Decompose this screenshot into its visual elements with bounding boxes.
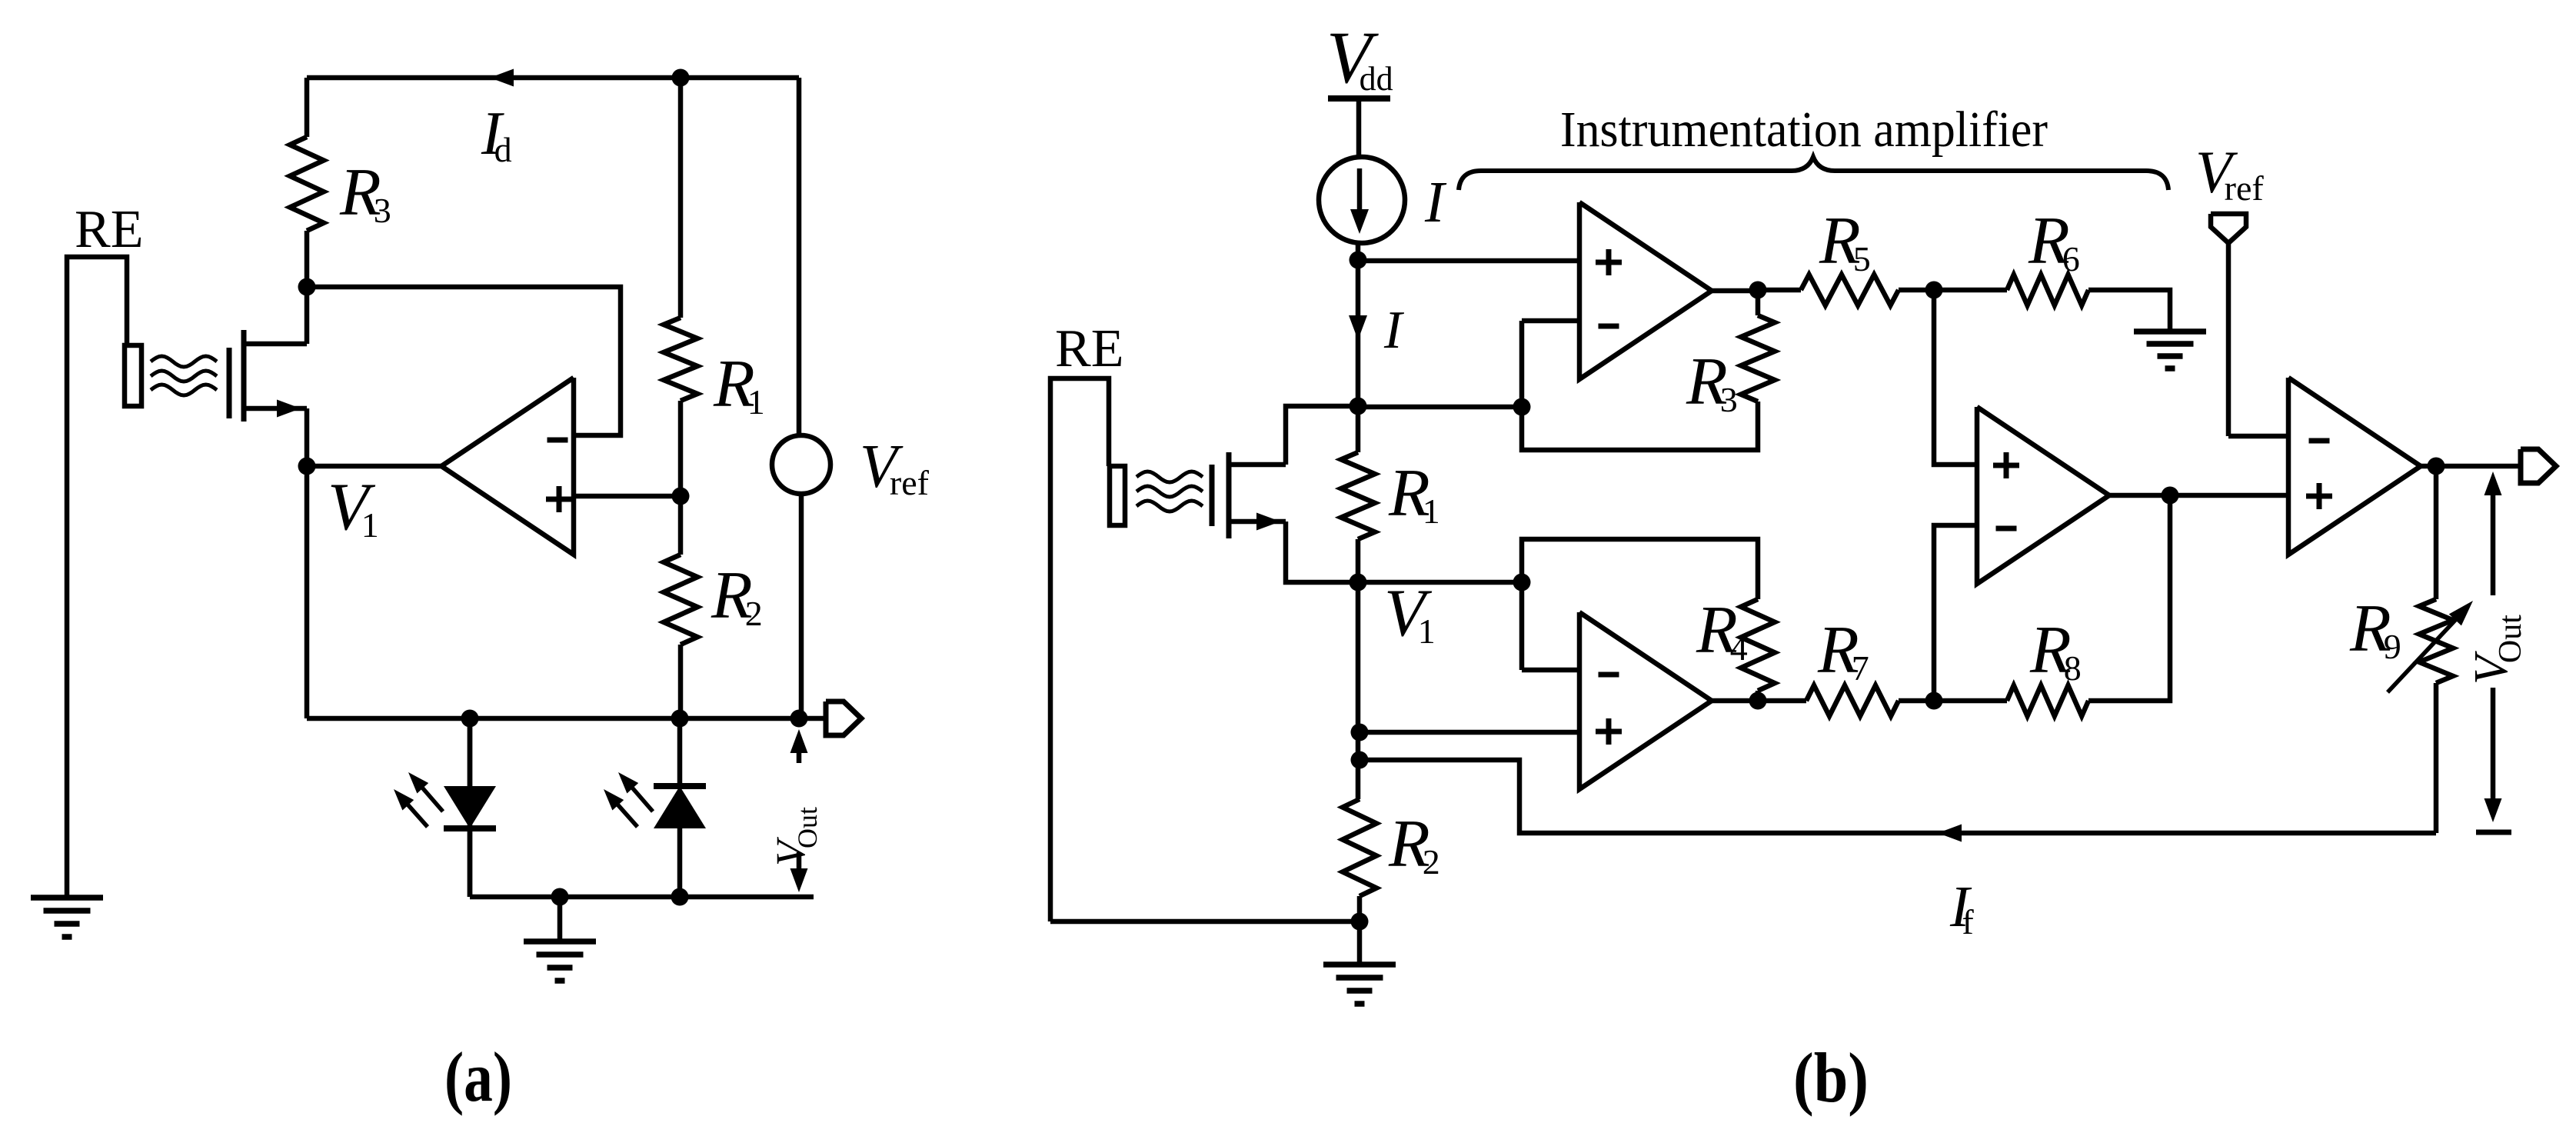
svg-text:RE: RE — [75, 200, 143, 259]
svg-text:(a): (a) — [444, 1038, 512, 1116]
svg-text:(b): (b) — [1793, 1038, 1869, 1117]
svg-text:Instrumentation amplifier: Instrumentation amplifier — [1560, 102, 2048, 158]
svg-text:RE: RE — [1055, 319, 1123, 378]
svg-text:I: I — [1424, 170, 1447, 235]
svg-text:I: I — [1383, 301, 1405, 360]
